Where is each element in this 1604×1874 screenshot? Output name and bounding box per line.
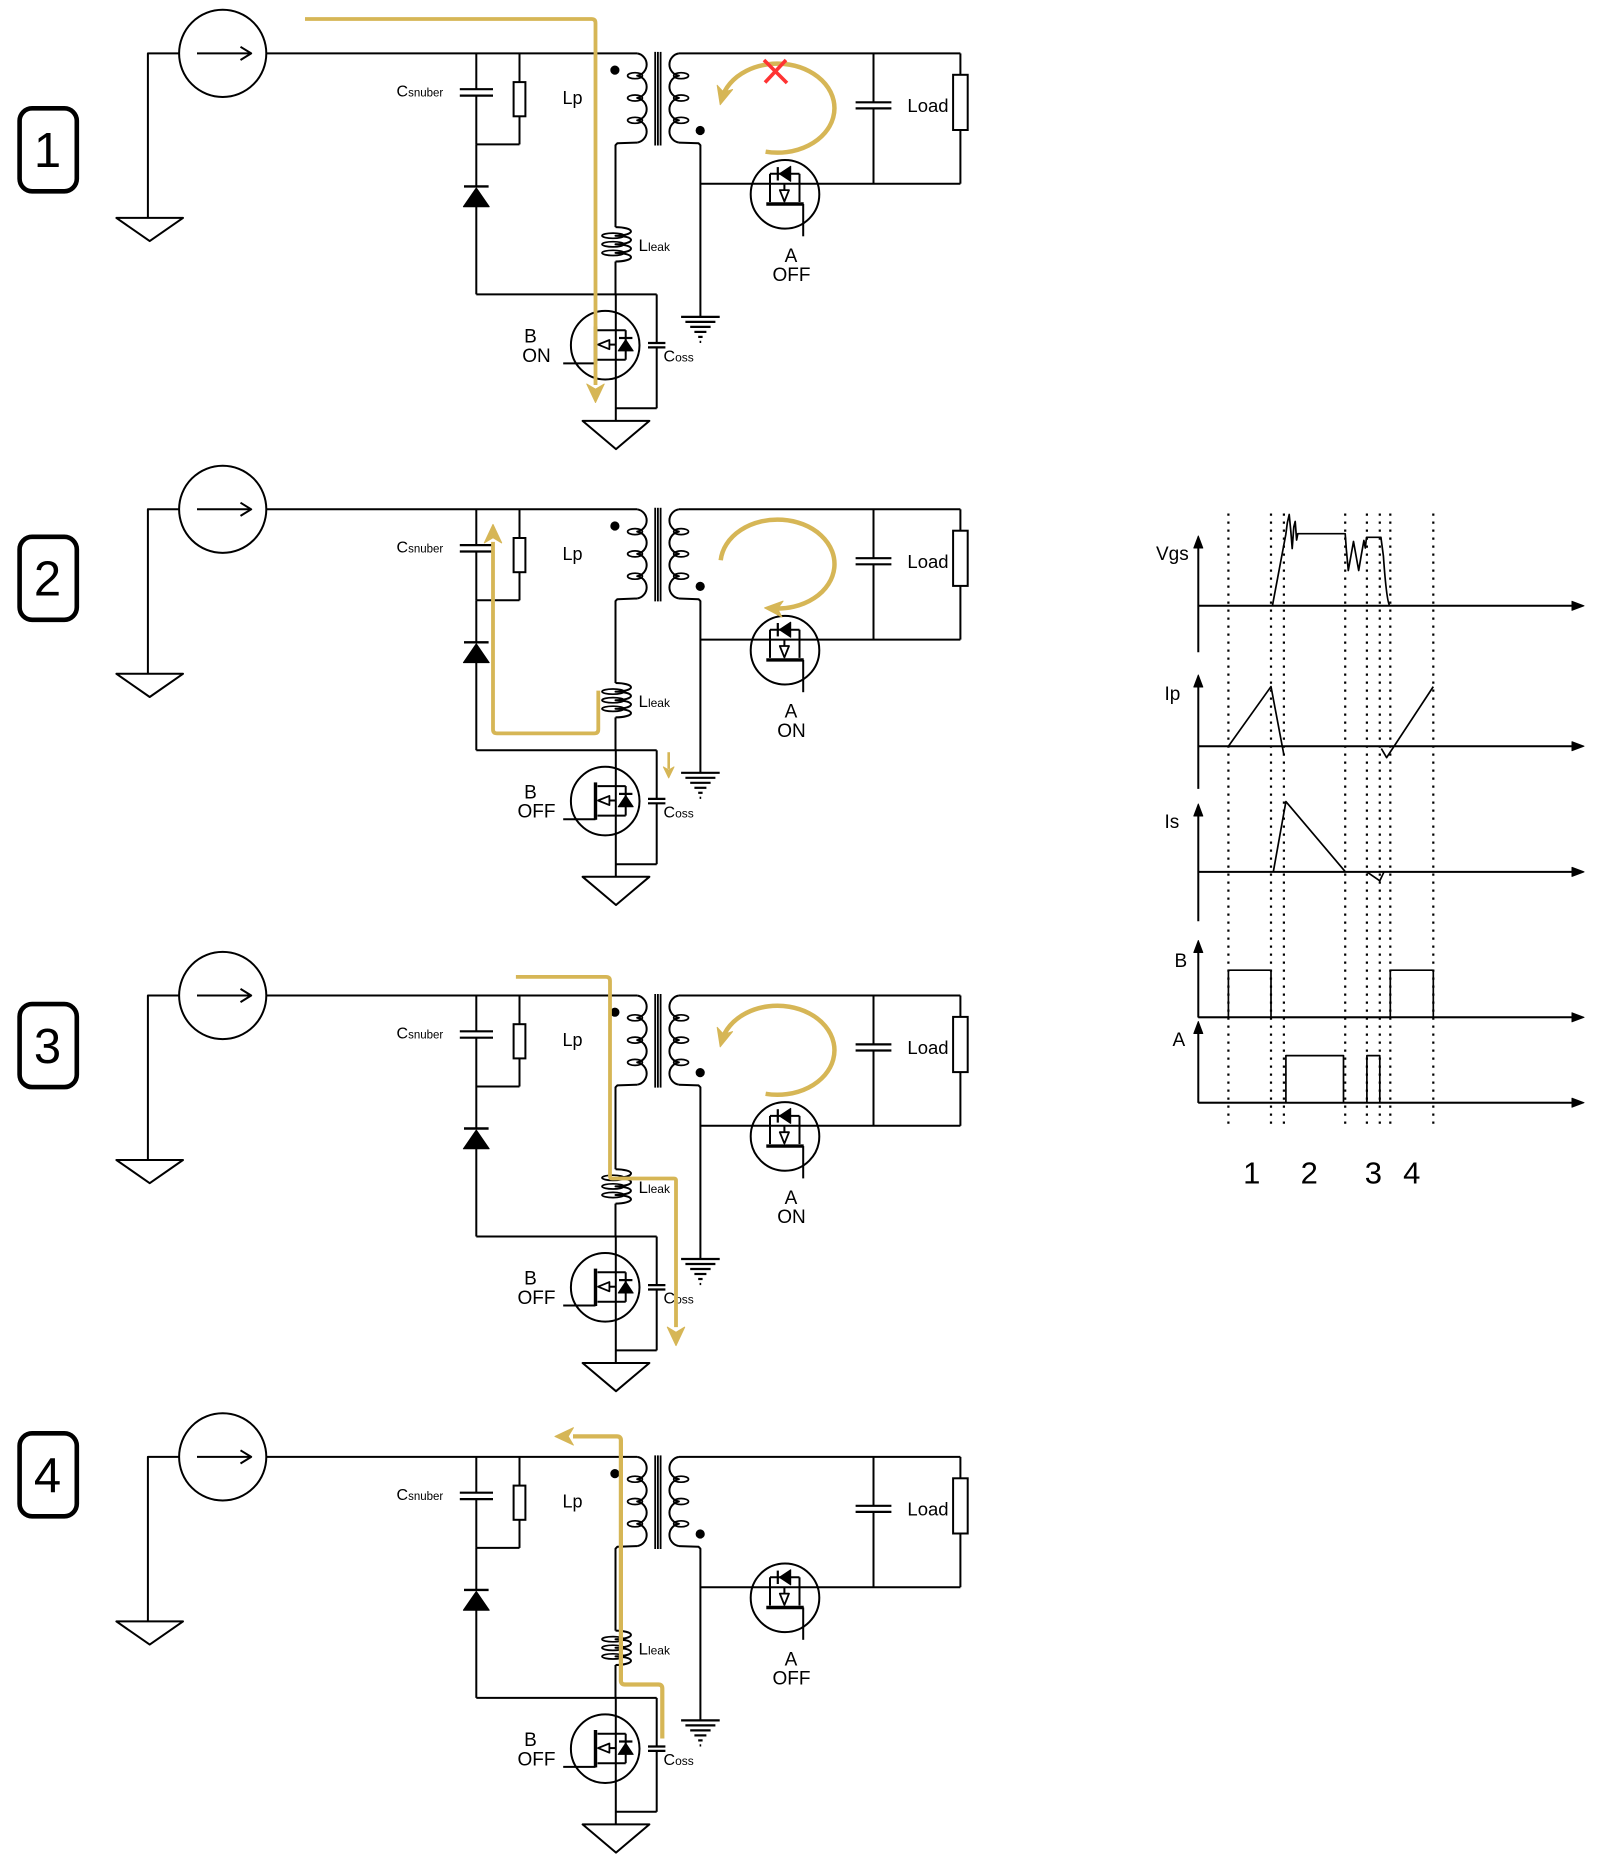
leakage inductor Lleak <box>616 1169 632 1203</box>
MOSFET source stub <box>799 1577 801 1605</box>
snubber resistor <box>519 996 521 1025</box>
MOSFET gate plate <box>594 1730 597 1767</box>
MOSFET gate plate <box>766 658 803 661</box>
body diode cathode bar <box>777 623 779 636</box>
wire: diode to bottom rail <box>475 207 477 295</box>
MOSFET substrate arrow <box>780 1594 789 1605</box>
svg-text:2: 2 <box>1301 1156 1318 1191</box>
earth ground (secondary) <box>681 316 720 318</box>
body diode triangle <box>779 1570 790 1585</box>
svg-text:Lp: Lp <box>563 88 583 108</box>
MOSFET gate lead <box>563 362 595 364</box>
output capacitor <box>873 53 875 102</box>
snubber resistor <box>519 1457 521 1486</box>
ground (input return) <box>116 674 183 697</box>
ground (below MOSFET B) <box>583 421 650 449</box>
snubber capacitor Coss <box>656 1698 658 1747</box>
body diode triangle <box>618 340 633 351</box>
MOSFET drain stub <box>598 329 626 331</box>
ground (below MOSFET B) <box>583 877 650 905</box>
MOSFET body circle <box>751 616 820 685</box>
svg-text:1: 1 <box>1243 1156 1260 1191</box>
MOSFET drain stub <box>769 630 771 658</box>
body diode cathode bar <box>619 1279 632 1281</box>
primary polarity dot <box>611 1008 619 1016</box>
transformer secondary winding <box>669 53 678 142</box>
snubber capacitor Coss <box>656 294 658 343</box>
MOSFET drain stub <box>598 1733 626 1735</box>
MOSFET gate lead <box>802 660 804 692</box>
transformer core <box>654 52 656 146</box>
timing grid dotted lines <box>1227 514 1229 1127</box>
MOSFET body circle <box>571 1253 640 1322</box>
wire: primary bottom to Lleak <box>616 1546 638 1631</box>
svg-text:B: B <box>1175 951 1188 972</box>
current source I2 <box>179 466 266 553</box>
load resistor <box>959 996 961 1017</box>
wire: secondary bottom down to output node <box>679 1085 701 1259</box>
current path (gold) stage 1 <box>305 19 596 385</box>
MOSFET A (ON) <box>751 616 820 692</box>
body diode triangle <box>779 622 790 637</box>
axis Ip <box>1197 685 1199 789</box>
MOSFET gate plate <box>594 782 597 819</box>
svg-text:Coss: Coss <box>664 804 694 821</box>
MOSFET source stub <box>598 815 626 817</box>
MOSFET body circle <box>751 1102 820 1171</box>
earth ground (secondary) <box>681 772 720 774</box>
MOSFET A (OFF) <box>751 1564 820 1640</box>
body diode triangle <box>779 166 790 181</box>
earth ground (secondary) <box>681 1258 720 1260</box>
wire: primary bottom to Lleak <box>616 143 638 228</box>
body diode cathode bar <box>777 1109 779 1122</box>
MOSFET drain stub <box>769 1116 771 1144</box>
MOSFET gate lead <box>802 204 804 236</box>
svg-text:Is: Is <box>1165 812 1180 833</box>
secondary bottom rail <box>700 1125 960 1127</box>
current source I1 <box>179 10 266 97</box>
snubber resistor <box>519 509 521 538</box>
small gold arrow to earth <box>667 752 670 769</box>
MOSFET body circle <box>571 1714 640 1783</box>
MOSFET A (ON) <box>751 1102 820 1178</box>
MOSFET B channel through-wire <box>615 1698 617 1825</box>
MOSFET substrate arrow <box>598 796 609 805</box>
svg-text:A: A <box>785 702 798 723</box>
svg-text:3: 3 <box>1365 1156 1382 1191</box>
body diode cathode bar <box>619 793 632 795</box>
MOSFET substrate arrow lead <box>609 800 616 802</box>
body diode branch <box>625 1734 627 1764</box>
svg-text:ON: ON <box>522 346 551 367</box>
MOSFET gate plate <box>594 1269 597 1306</box>
svg-text:Load: Load <box>907 1037 948 1058</box>
snubber diode <box>464 185 489 187</box>
wire: source to Coss bottom <box>616 1811 657 1813</box>
wire: source left to ground <box>148 509 179 674</box>
Is waveform <box>1273 802 1345 872</box>
secondary polarity dot <box>696 582 704 590</box>
svg-text:OFF: OFF <box>773 265 811 286</box>
axis A <box>1197 1032 1199 1103</box>
secondary polarity dot <box>696 126 704 134</box>
stage number box 3 <box>20 1004 77 1087</box>
ground (below MOSFET B) <box>583 1363 650 1391</box>
svg-text:OFF: OFF <box>518 802 556 823</box>
body diode cathode bar <box>777 1571 779 1584</box>
svg-text:A: A <box>785 1649 798 1670</box>
MOSFET gate plate <box>766 1606 803 1609</box>
wire: junction to diode <box>475 1087 477 1129</box>
wire: secondary top rail <box>679 1456 961 1458</box>
transformer primary winding Lp <box>637 53 646 142</box>
current path (gold) stage 4 <box>573 1436 662 1738</box>
body diode branch <box>625 330 627 360</box>
axis Is <box>1197 814 1199 921</box>
svg-text:3: 3 <box>34 1020 61 1074</box>
svg-text:B: B <box>524 782 537 803</box>
snubber capacitor Csnuber <box>475 509 477 545</box>
stage number box 1 <box>20 108 77 191</box>
leakage inductor Lleak <box>616 683 632 717</box>
svg-text:4: 4 <box>34 1449 61 1503</box>
MOSFET drain stub <box>769 1577 771 1605</box>
current path (gold) stage 3 <box>516 977 676 1327</box>
MOSFET substrate arrow lead <box>609 1286 616 1288</box>
body diode cathode bar <box>619 337 632 339</box>
svg-text:Ip: Ip <box>1165 684 1181 705</box>
MOSFET B channel through-wire <box>615 1237 617 1364</box>
svg-text:Lp: Lp <box>563 544 583 564</box>
svg-text:Lp: Lp <box>563 1030 583 1050</box>
MOSFET substrate arrow <box>780 1132 789 1143</box>
wire: source left to ground <box>148 53 179 218</box>
A gate waveform <box>1198 1056 1560 1103</box>
body diode branch <box>770 1576 800 1578</box>
wire: bottom rail to MOSFET B drain node <box>476 1697 656 1699</box>
transformer core <box>654 508 656 602</box>
wire: source to Coss bottom <box>616 1349 657 1351</box>
svg-text:A: A <box>1173 1030 1186 1051</box>
current source I3 <box>179 952 266 1039</box>
MOSFET source stub <box>799 630 801 658</box>
MOSFET substrate arrow <box>598 1744 609 1753</box>
load resistor <box>959 53 961 74</box>
primary polarity dot <box>611 1470 619 1478</box>
wire: snubber bottom junction <box>476 599 519 601</box>
body diode triangle <box>779 1108 790 1123</box>
svg-text:1: 1 <box>34 124 61 178</box>
wire: diode to bottom rail <box>475 663 477 751</box>
MOSFET gate lead <box>563 818 595 820</box>
svg-text:OFF: OFF <box>773 1669 811 1690</box>
load resistor <box>959 1457 961 1478</box>
wire: bottom rail to MOSFET B drain node <box>476 293 656 295</box>
body diode cathode bar <box>619 1740 632 1742</box>
MOSFET substrate arrow lead <box>609 1747 616 1749</box>
transformer primary winding Lp <box>637 1457 646 1546</box>
axis Vgs <box>1197 546 1199 652</box>
snubber capacitor Coss <box>656 750 658 799</box>
MOSFET gate plate <box>766 1144 803 1147</box>
wire: bottom rail to MOSFET B drain node <box>476 1236 656 1238</box>
MOSFET body circle <box>571 767 640 836</box>
MOSFET gate lead <box>563 1305 595 1307</box>
MOSFET B channel through-wire <box>615 294 617 421</box>
body diode branch <box>625 786 627 816</box>
wire: secondary top rail <box>679 995 961 997</box>
wire: bottom rail to MOSFET B drain node <box>476 749 656 751</box>
MOSFET drain stub <box>769 174 771 202</box>
MOSFET substrate arrow <box>780 190 789 201</box>
svg-text:ON: ON <box>777 721 806 742</box>
snubber diode <box>464 641 489 643</box>
current source I4 <box>179 1413 266 1500</box>
MOSFET B channel through-wire <box>615 750 617 877</box>
MOSFET substrate arrow <box>598 1282 609 1291</box>
stage number box 4 <box>20 1433 77 1516</box>
secondary bottom rail <box>700 1586 960 1588</box>
svg-text:Load: Load <box>907 551 948 572</box>
stage number box 2 <box>20 537 77 620</box>
MOSFET gate lead <box>563 1766 595 1768</box>
MOSFET body circle <box>751 160 820 229</box>
wire: junction to diode <box>475 600 477 642</box>
wire: secondary top rail <box>679 52 961 54</box>
wire: secondary bottom down to output node <box>679 599 701 773</box>
body diode triangle <box>618 796 633 807</box>
B gate waveform <box>1198 970 1560 1017</box>
MOSFET gate plate <box>594 327 597 364</box>
transformer primary winding Lp <box>637 996 646 1085</box>
wire: Lleak to MOSFET B drain <box>615 1665 617 1698</box>
wire: source to Coss bottom <box>616 407 657 409</box>
snubber capacitor Csnuber <box>475 53 477 89</box>
MOSFET substrate arrow <box>598 340 609 349</box>
secondary loop (gold) stage 2 <box>721 520 835 609</box>
MOSFET substrate arrow lead <box>783 1126 785 1133</box>
snubber diode <box>464 1589 489 1591</box>
ground (input return) <box>116 218 183 241</box>
wire: secondary bottom down to output node <box>679 1546 701 1720</box>
MOSFET drain stub <box>598 785 626 787</box>
MOSFET body circle <box>571 311 640 380</box>
snubber resistor <box>519 53 521 82</box>
blocked secondary loop (gold) <box>722 64 835 153</box>
MOSFET substrate arrow <box>780 646 789 657</box>
current path (gold) stage 2 <box>493 542 598 734</box>
svg-text:2: 2 <box>34 553 61 607</box>
Vgs waveform <box>1272 515 1389 606</box>
body diode triangle <box>618 1282 633 1293</box>
wire: secondary top rail <box>679 508 961 510</box>
snubber capacitor Coss <box>656 1237 658 1286</box>
MOSFET body circle <box>751 1564 820 1633</box>
load resistor <box>959 509 961 530</box>
transformer core <box>654 994 656 1088</box>
svg-text:B: B <box>524 1730 537 1751</box>
wire: junction to diode <box>475 1548 477 1590</box>
MOSFET substrate arrow lead <box>609 344 616 346</box>
MOSFET source stub <box>598 1301 626 1303</box>
svg-text:Load: Load <box>907 95 948 116</box>
snubber capacitor Csnuber <box>475 996 477 1032</box>
ground (below MOSFET B) <box>583 1824 650 1852</box>
svg-text:Coss: Coss <box>664 1291 694 1308</box>
wire: source left to ground <box>148 996 179 1161</box>
secondary bottom rail <box>700 639 960 641</box>
wire: source to transformer primary <box>266 1456 637 1458</box>
MOSFET drain stub <box>598 1271 626 1273</box>
wire: source to transformer primary <box>266 995 637 997</box>
svg-text:OFF: OFF <box>518 1749 556 1770</box>
svg-text:Coss: Coss <box>664 349 694 366</box>
earth ground (secondary) <box>681 1719 720 1721</box>
body diode triangle <box>618 1743 633 1754</box>
wire: secondary bottom down to output node <box>679 143 701 317</box>
transformer secondary winding <box>669 1457 678 1546</box>
ground (input return) <box>116 1621 183 1644</box>
MOSFET gate lead <box>802 1608 804 1640</box>
primary polarity dot <box>611 66 619 74</box>
MOSFET substrate arrow lead <box>783 639 785 646</box>
svg-text:B: B <box>524 1269 537 1290</box>
output capacitor <box>873 996 875 1045</box>
output capacitor <box>873 1457 875 1506</box>
MOSFET substrate arrow lead <box>783 184 785 191</box>
wire: source left to ground <box>148 1457 179 1622</box>
svg-text:B: B <box>524 327 537 348</box>
svg-text:Coss: Coss <box>664 1752 694 1769</box>
svg-text:Lp: Lp <box>563 1492 583 1512</box>
body diode cathode bar <box>777 167 779 180</box>
transformer primary winding Lp <box>637 509 646 598</box>
MOSFET source stub <box>799 1116 801 1144</box>
axis B <box>1197 951 1199 1018</box>
MOSFET substrate arrow lead <box>783 1587 785 1594</box>
transformer core <box>654 1455 656 1549</box>
transformer secondary winding <box>669 996 678 1085</box>
MOSFET gate lead <box>802 1146 804 1178</box>
svg-text:Vgs: Vgs <box>1156 544 1189 565</box>
MOSFET source stub <box>598 359 626 361</box>
wire: snubber bottom junction <box>476 1086 519 1088</box>
leakage inductor Lleak <box>616 227 632 261</box>
wire: diode to bottom rail <box>475 1610 477 1698</box>
MOSFET gate plate <box>766 202 803 205</box>
snubber capacitor Csnuber <box>475 1457 477 1493</box>
output capacitor <box>873 509 875 558</box>
svg-text:ON: ON <box>777 1207 806 1228</box>
svg-text:4: 4 <box>1403 1156 1420 1191</box>
body diode branch <box>770 1115 800 1117</box>
wire: Lleak to MOSFET B drain <box>615 262 617 295</box>
body diode branch <box>625 1272 627 1302</box>
svg-text:A: A <box>785 1188 798 1209</box>
secondary bottom rail <box>700 183 960 185</box>
wire: primary bottom to Lleak <box>616 1085 638 1170</box>
red X (no secondary current) <box>764 60 787 83</box>
snubber diode <box>464 1127 489 1129</box>
wire: source to transformer primary <box>266 52 637 54</box>
secondary polarity dot <box>696 1069 704 1077</box>
wire: diode to bottom rail <box>475 1149 477 1237</box>
wire: source to Coss bottom <box>616 863 657 865</box>
ground (input return) <box>116 1160 183 1183</box>
wire: snubber bottom junction <box>476 143 519 145</box>
wire: Lleak to MOSFET B drain <box>615 1204 617 1237</box>
body diode branch <box>770 629 800 631</box>
svg-text:OFF: OFF <box>518 1288 556 1309</box>
Ip waveform <box>1228 687 1284 755</box>
leakage inductor Lleak <box>616 1631 632 1665</box>
svg-text:Load: Load <box>907 1499 948 1520</box>
body diode branch <box>770 173 800 175</box>
secondary polarity dot <box>696 1530 704 1538</box>
MOSFET source stub <box>799 174 801 202</box>
MOSFET A (OFF) <box>751 160 820 236</box>
MOSFET source stub <box>598 1762 626 1764</box>
wire: source to transformer primary <box>266 508 637 510</box>
wire: snubber bottom junction <box>476 1547 519 1549</box>
primary polarity dot <box>611 522 619 530</box>
wire: primary bottom to Lleak <box>616 599 638 684</box>
wire: Lleak to MOSFET B drain <box>615 717 617 750</box>
secondary loop (gold) stage 3 <box>722 1006 835 1095</box>
transformer secondary winding <box>669 509 678 598</box>
svg-text:A: A <box>785 246 798 267</box>
wire: junction to diode <box>475 144 477 186</box>
